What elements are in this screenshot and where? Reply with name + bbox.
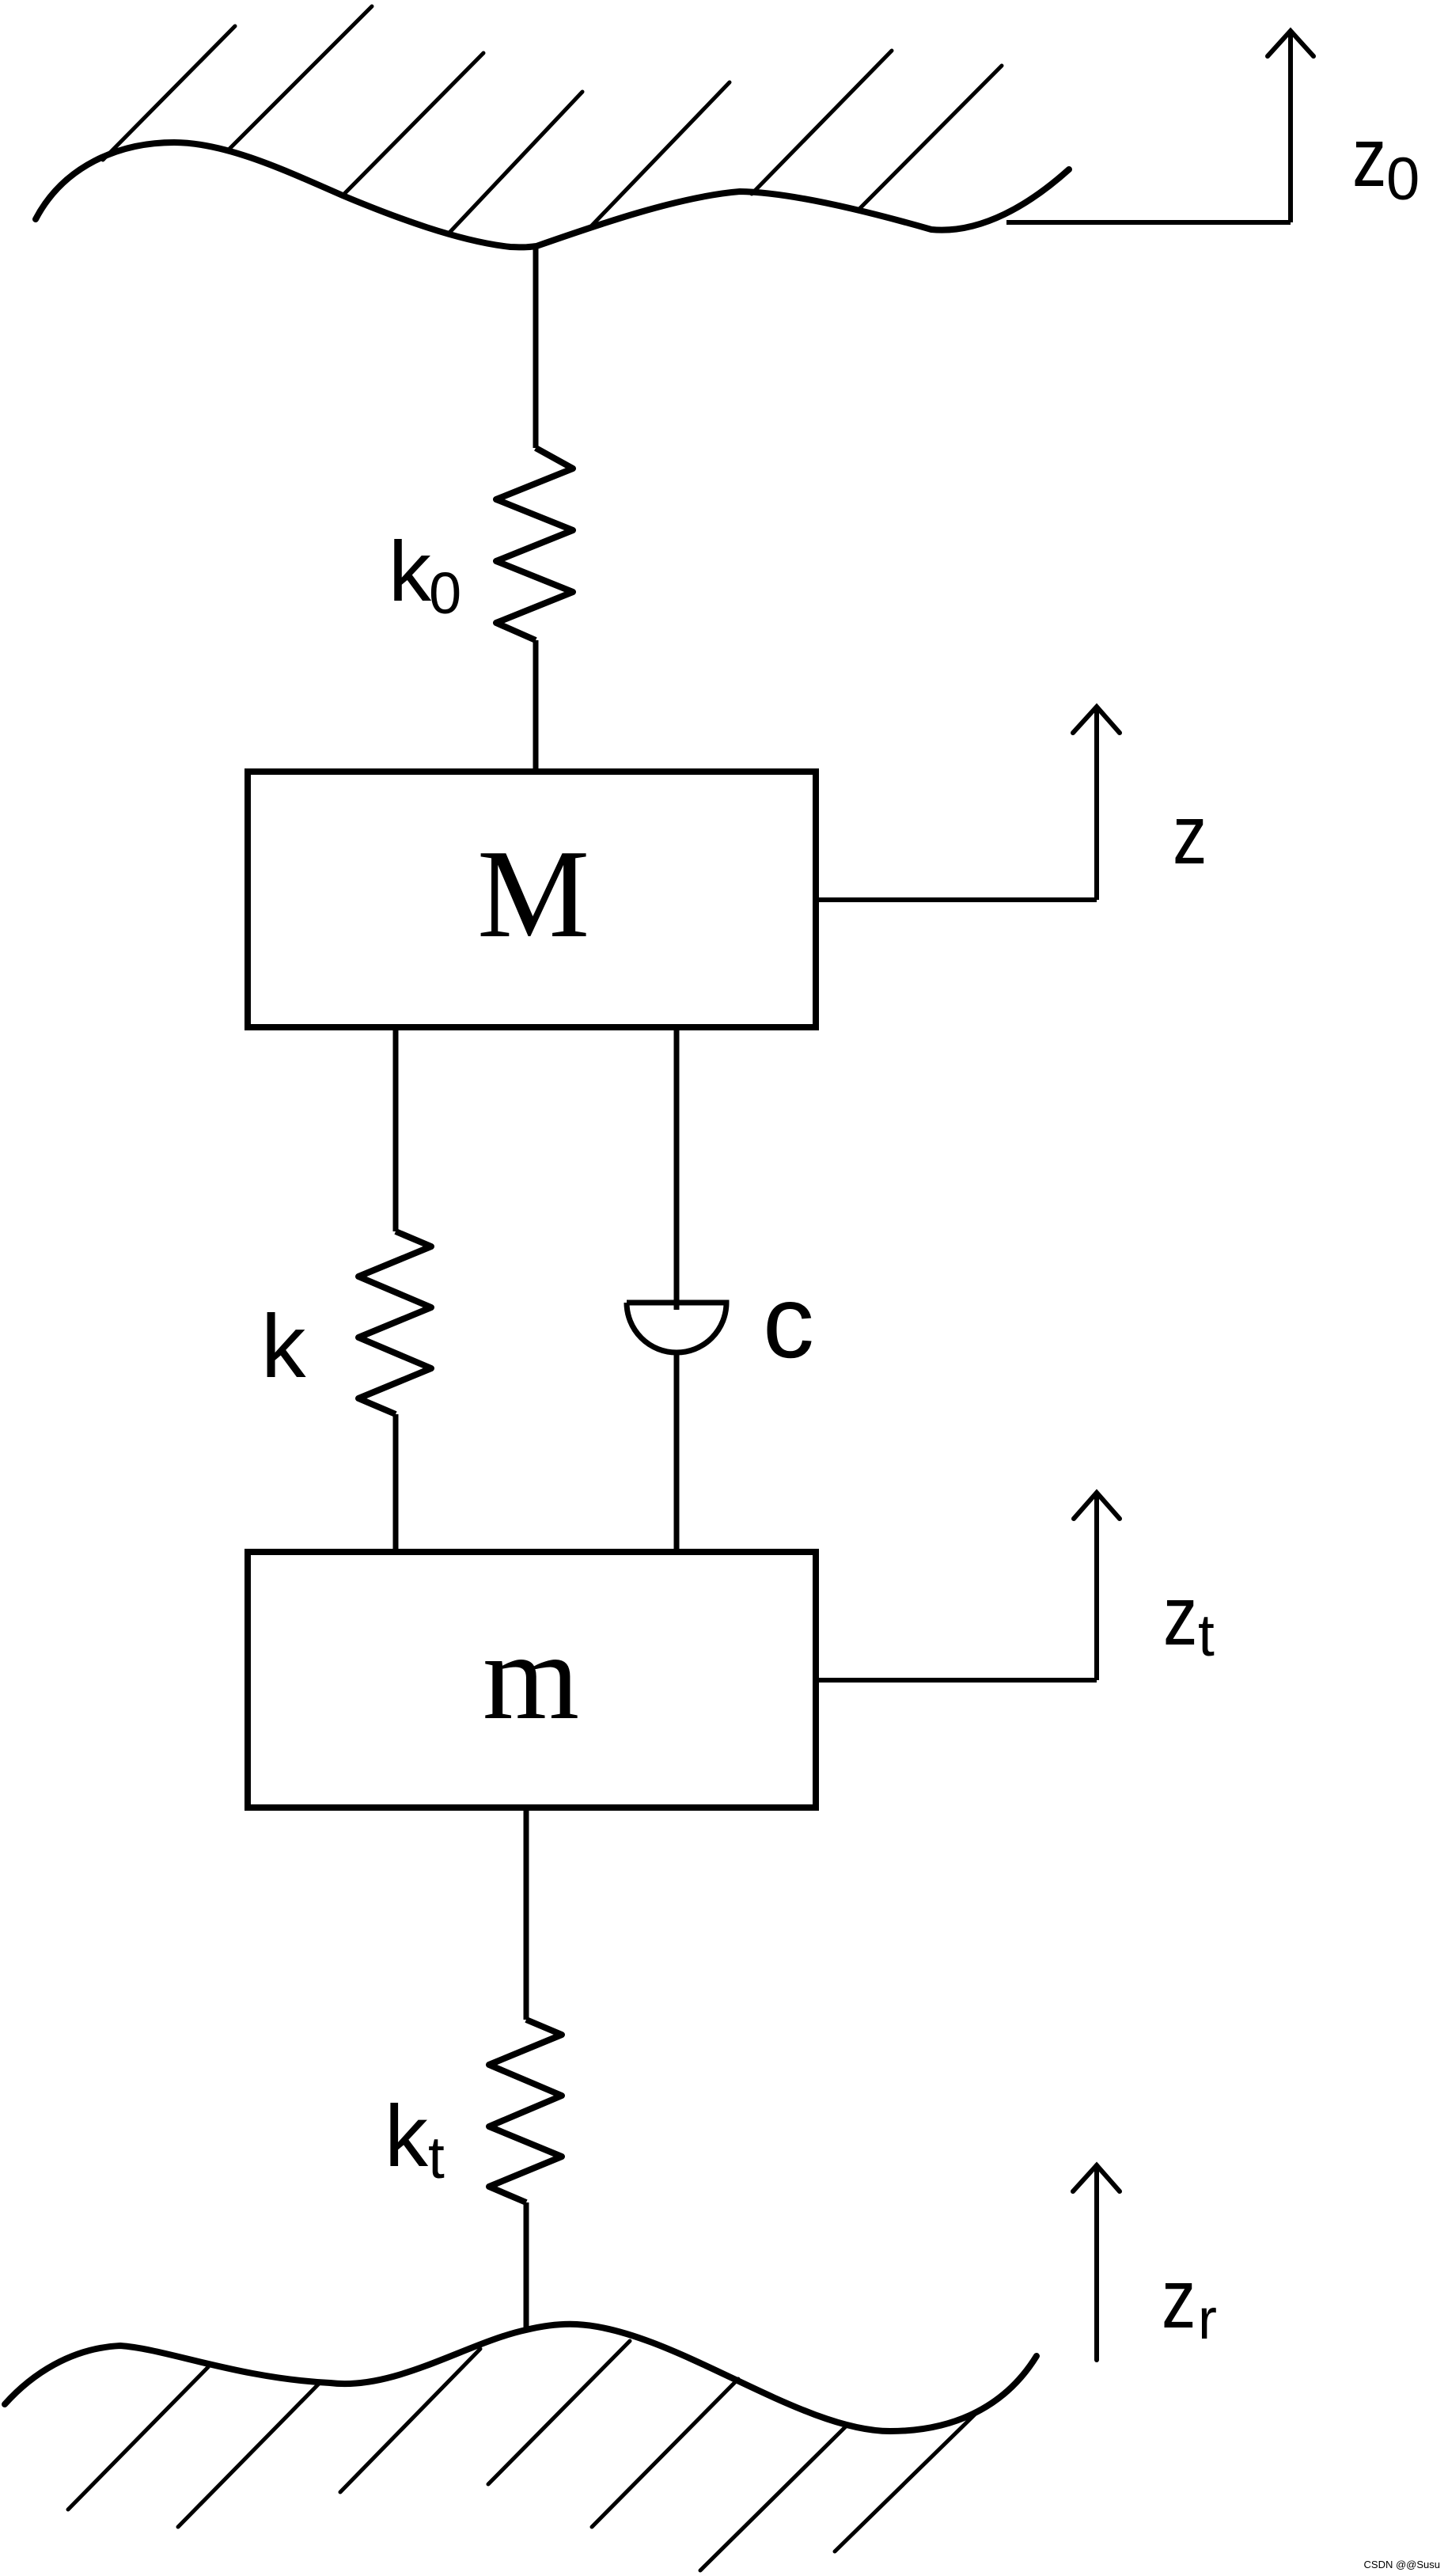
damper c bowl [627, 1303, 726, 1352]
wire from spring k to mass m [393, 1414, 399, 1552]
z0 axis vertical arrow shaft [1288, 31, 1293, 222]
svg-text:k: k [261, 1296, 306, 1396]
z axis vertical arrow shaft [1094, 707, 1099, 900]
spring k [358, 1231, 431, 1414]
ground hatch 5 [592, 2379, 738, 2527]
mass M box [248, 772, 816, 1027]
ground hatch 4 [488, 2341, 630, 2484]
svg-text:m: m [483, 1607, 579, 1745]
z axis horizontal line [816, 897, 1097, 902]
svg-text:z: z [1162, 2252, 1196, 2346]
wire from ceiling to spring k0 [533, 244, 539, 448]
svg-text:z: z [1163, 1569, 1197, 1663]
ground hatch 2 [178, 2383, 320, 2527]
zt axis vertical arrow shaft [1094, 1493, 1099, 1680]
mass m box [248, 1552, 816, 1808]
svg-text:z: z [1173, 787, 1207, 882]
z0 axis horizontal line [1006, 220, 1291, 225]
ceiling hatch 7 [858, 66, 1002, 211]
svg-text:CSDN @@Susu: CSDN @@Susu [1364, 2559, 1440, 2570]
svg-text:c: c [763, 1264, 814, 1379]
ground hatch 7 [835, 2411, 979, 2551]
wire from spring kt to ground [524, 2202, 529, 2332]
ceiling hatch 3 [343, 53, 483, 195]
ceiling hatch 1 [103, 26, 235, 160]
wire from mass M to spring k [393, 1027, 399, 1231]
svg-text:M: M [477, 823, 589, 964]
spring k0 [496, 448, 573, 640]
svg-text:0: 0 [429, 560, 461, 626]
ground hatch 3 [340, 2349, 480, 2492]
z0 arrowhead [1268, 31, 1313, 56]
svg-text:r: r [1198, 2288, 1217, 2351]
zr axis vertical arrow shaft [1094, 2165, 1099, 2360]
spring kt [489, 2020, 562, 2202]
wire from mass M to damper c [674, 1027, 680, 1310]
ground wavy surface (road, bottom) [5, 2324, 1037, 2431]
svg-text:z: z [1352, 110, 1386, 204]
svg-text:k: k [385, 2088, 429, 2185]
wire from spring k0 to mass M [533, 640, 539, 772]
svg-text:0: 0 [1386, 146, 1420, 213]
svg-text:t: t [428, 2124, 445, 2191]
ceiling hatch 2 [229, 6, 372, 149]
ceiling hatch 4 [448, 92, 582, 234]
ceiling hatch 6 [752, 51, 892, 194]
wire from mass m to spring kt [524, 1808, 529, 2020]
zr arrowhead [1073, 2165, 1120, 2191]
ceiling hatch 5 [589, 82, 730, 228]
ground hatch 6 [700, 2426, 846, 2570]
ceiling wavy surface (fixed support, top) [36, 142, 1069, 247]
svg-text:k: k [389, 523, 432, 619]
ground hatch 1 [68, 2367, 208, 2510]
zt arrowhead [1074, 1493, 1120, 1519]
z arrowhead [1073, 707, 1120, 733]
zt axis horizontal line [816, 1678, 1097, 1683]
wire from damper c to mass m [674, 1352, 680, 1552]
svg-text:t: t [1198, 1602, 1215, 1668]
